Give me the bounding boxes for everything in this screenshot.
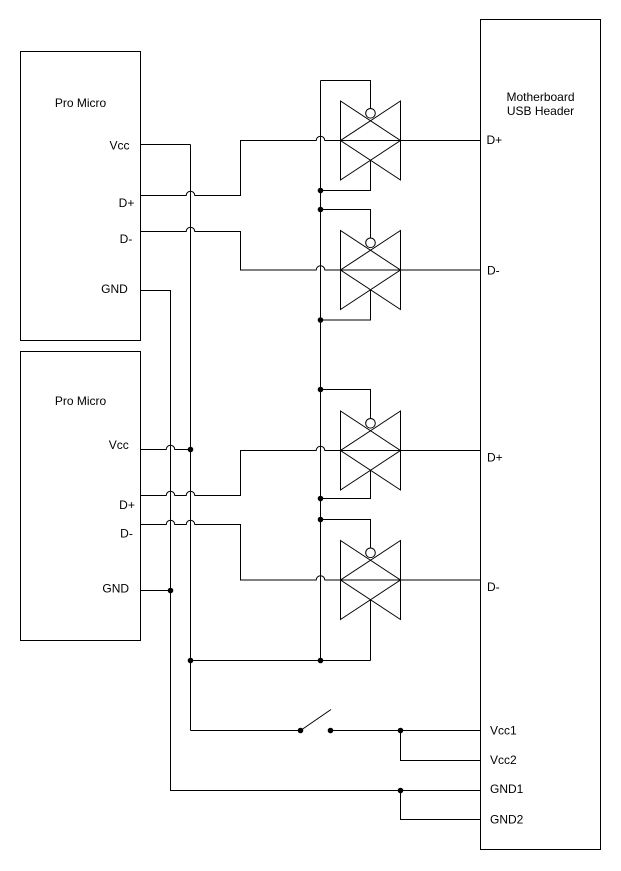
- wire: net D+1 (U1 D+ pin through gate U3A to J1 D+): [141, 136, 481, 195]
- analog switch U4B (transmission gate): [341, 541, 401, 620]
- junction: U4A complement on control rail: [318, 496, 324, 502]
- wire: U2 GND pin to GND rail: [141, 590, 171, 592]
- control wire: U4A enable bubble to control rail: [321, 390, 371, 419]
- control wire: U4B enable bubble to control rail: [321, 520, 371, 549]
- wire: net GND (U1 GND pin, GND rail down to J1 GND1): [141, 291, 481, 791]
- svg-text:GND: GND: [102, 582, 129, 596]
- svg-text:GND2: GND2: [490, 812, 524, 826]
- control wire: U3B enable bubble to control rail: [321, 210, 371, 239]
- wire: net D-1 (U1 D- pin through gate U3B to J1 D-): [141, 227, 481, 270]
- wire: switch S1 throw to J1 Vcc1: [331, 730, 481, 732]
- svg-text:Vcc2: Vcc2: [490, 753, 517, 767]
- wire: U2 Vcc pin to Vcc rail: [141, 445, 191, 449]
- svg-text:Vcc1: Vcc1: [490, 723, 517, 737]
- wire: Vcc rail (vertical, U1 Vcc down to power switch S1): [190, 145, 192, 731]
- wire: Vcc rail to switch S1 pole: [191, 730, 301, 732]
- svg-text:D-: D-: [120, 232, 133, 246]
- analog switch U3A (transmission gate): [341, 101, 401, 180]
- svg-text:Motherboard: Motherboard: [506, 90, 574, 104]
- junction: U3A complement on control rail: [318, 188, 324, 194]
- junction: Vcc1/Vcc2 tap: [398, 728, 404, 734]
- wire: branch to J1 GND2: [401, 791, 481, 820]
- wire: net D-2 (U2 D- pin through gate U4B to J1 D- port 2): [141, 520, 481, 580]
- control wire: U4A complement to control rail: [321, 470, 371, 498]
- svg-text:GND: GND: [101, 282, 128, 296]
- svg-text:USB Header: USB Header: [507, 104, 574, 118]
- control wire: U3A complement to control rail: [321, 160, 371, 190]
- toggle switch S1 (SPST, open): [298, 710, 334, 734]
- svg-text:GND1: GND1: [490, 782, 524, 796]
- junction: U4A enable on control rail: [318, 387, 324, 393]
- svg-text:Pro Micro: Pro Micro: [55, 394, 107, 408]
- wire: gate control rail (vertical): [320, 81, 322, 661]
- control wire: U3A enable bubble to control rail: [321, 81, 371, 109]
- junction: U3B enable on control rail: [318, 207, 324, 213]
- wire: net D+2 (U2 D+ pin through gate U4A to J1 D+ port 2): [141, 446, 481, 495]
- svg-text:D+: D+: [487, 133, 503, 147]
- junction: U2 GND joins GND rail: [168, 588, 174, 594]
- wire: branch to J1 Vcc2: [401, 731, 481, 761]
- Motherboard USB header J1 (box): [481, 20, 601, 850]
- wire: bottom control bus: [191, 660, 371, 662]
- analog switch U3B (transmission gate): [341, 231, 401, 310]
- analog switch U4A (transmission gate): [341, 411, 401, 490]
- junction: control rail joins bottom control bus: [318, 658, 324, 664]
- svg-text:Vcc: Vcc: [109, 438, 129, 452]
- wire: U1 Vcc pin to Vcc rail: [141, 144, 191, 146]
- junction: U4B enable on control rail: [318, 517, 324, 523]
- junction: U2 Vcc joins Vcc rail: [188, 447, 194, 453]
- junction: GND1/GND2 tap: [398, 788, 404, 794]
- control wire: U4B complement to control rail: [370, 600, 372, 661]
- svg-text:D-: D-: [487, 580, 500, 594]
- junction: U3B complement on control rail: [318, 317, 324, 323]
- svg-text:Pro Micro: Pro Micro: [55, 96, 107, 110]
- svg-text:D+: D+: [487, 451, 503, 465]
- control wire: U3B complement to control rail: [321, 290, 371, 320]
- svg-text:D-: D-: [120, 527, 133, 541]
- svg-text:D-: D-: [487, 263, 500, 277]
- svg-text:D+: D+: [119, 498, 135, 512]
- svg-text:D+: D+: [119, 196, 135, 210]
- svg-text:Vcc: Vcc: [109, 139, 129, 153]
- Pro Micro board U2 (bottom microcontroller box): [21, 352, 141, 641]
- junction: Vcc rail joins bottom control bus: [188, 658, 194, 664]
- Pro Micro board U1 (top microcontroller box): [21, 52, 141, 341]
